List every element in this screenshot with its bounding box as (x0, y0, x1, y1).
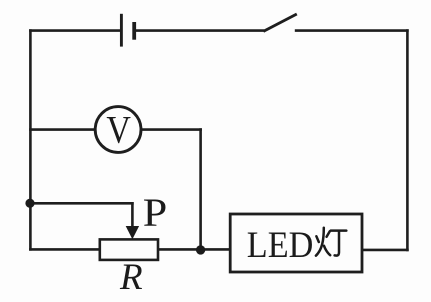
wire voltmeter down vertical (199, 128, 202, 250)
svg-text:P: P (143, 190, 168, 235)
svg-text:R: R (119, 257, 143, 298)
slider arrowhead P (126, 226, 139, 239)
wire rheostat to junction B and LED box (158, 248, 231, 251)
wire left vertical (29, 29, 32, 250)
wire slider vertical (131, 202, 134, 228)
wire top-left (corner to battery +) (29, 29, 121, 32)
wire right vertical (406, 29, 409, 251)
junction node B (bottom) (196, 245, 205, 254)
wire voltmeter right (141, 128, 202, 131)
rheostat R body (100, 239, 158, 260)
junction node A (left) (25, 199, 34, 208)
svg-text:LED: LED (247, 225, 313, 266)
wire bottom-left to rheostat (29, 248, 100, 251)
wire switch to top-right corner (295, 29, 409, 32)
svg-text:V: V (106, 109, 131, 152)
LED lamp label CJK deng (lamp) drawn glyph (316, 228, 346, 256)
LED lamp box (230, 214, 362, 272)
wire battery to switch (134, 29, 264, 32)
battery short plate (-) (132, 22, 136, 40)
voltmeter U1 circle (95, 107, 141, 153)
battery long plate (+) (120, 14, 123, 47)
wire slider branch horizontal (29, 202, 134, 205)
switch blade (263, 14, 296, 31)
wire LED box to right vertical (362, 249, 409, 252)
wire voltmeter left (29, 128, 95, 131)
